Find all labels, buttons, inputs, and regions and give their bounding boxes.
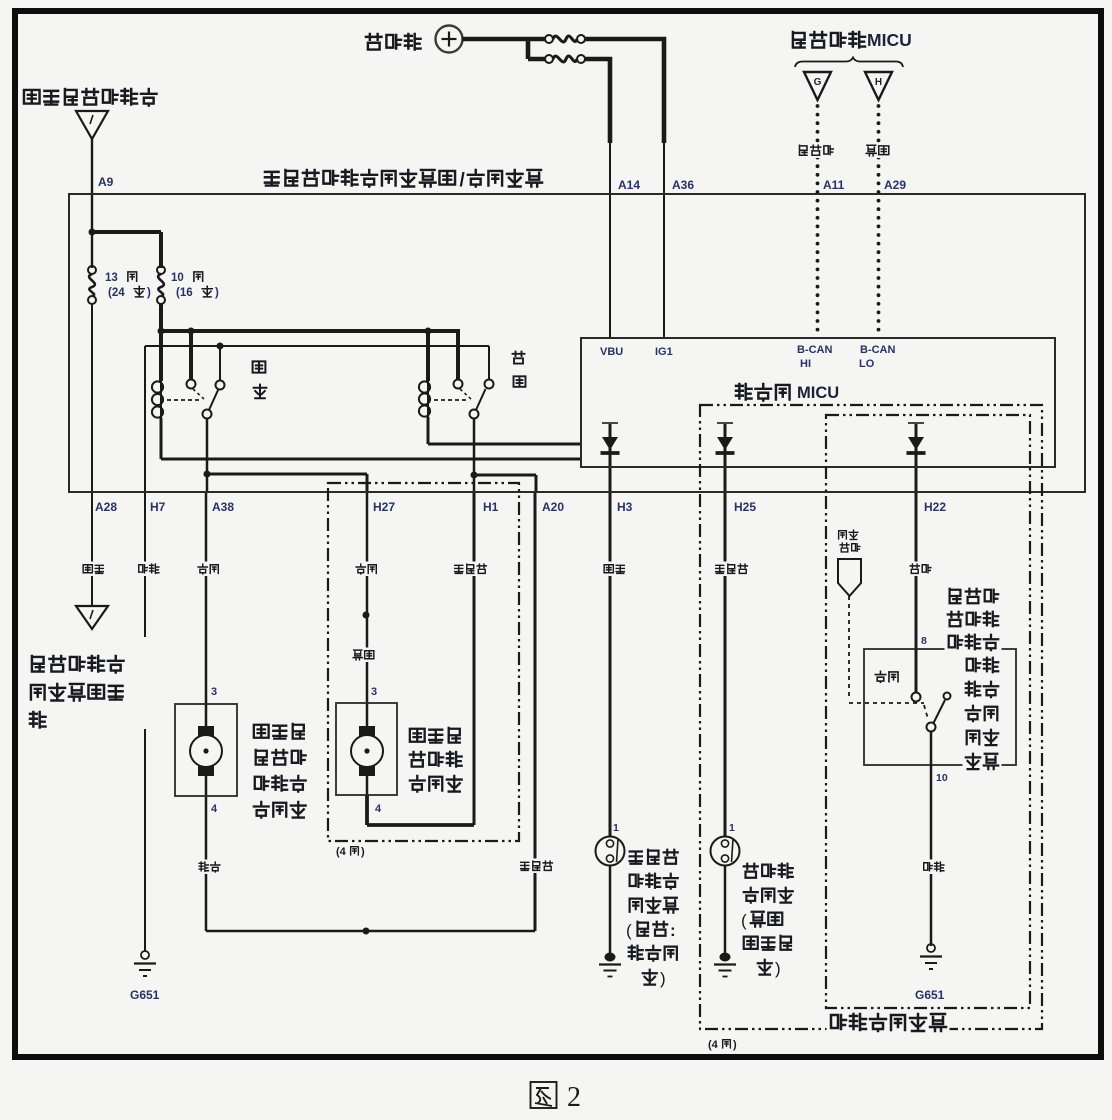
svg-text:H25: H25	[734, 500, 756, 514]
svg-text:(4: (4	[708, 1039, 719, 1051]
svg-text:LO: LO	[859, 358, 875, 370]
svg-text:10: 10	[171, 272, 184, 284]
svg-text:VBU: VBU	[600, 346, 623, 358]
svg-text:A9: A9	[98, 175, 114, 189]
svg-text:A29: A29	[884, 178, 906, 192]
svg-text:B-CAN: B-CAN	[797, 344, 832, 356]
svg-text:G651: G651	[130, 988, 160, 1002]
svg-text:MICU: MICU	[797, 384, 839, 402]
svg-text:HI: HI	[800, 358, 811, 370]
svg-text:/: /	[460, 170, 466, 191]
svg-text:A20: A20	[542, 500, 564, 514]
svg-text:G651: G651	[915, 988, 945, 1002]
svg-text:A11: A11	[823, 178, 845, 192]
svg-text:(16: (16	[176, 287, 193, 299]
svg-text:H27: H27	[373, 500, 395, 514]
svg-text:(: (	[626, 921, 632, 940]
svg-text:(24: (24	[108, 287, 125, 299]
svg-text:(: (	[741, 911, 747, 930]
svg-text:H7: H7	[150, 500, 166, 514]
svg-text:G: G	[814, 77, 822, 88]
svg-text:(4: (4	[336, 846, 347, 858]
svg-text:10: 10	[936, 772, 948, 784]
svg-text:): )	[733, 1039, 737, 1051]
svg-text:): )	[215, 287, 219, 299]
svg-text:3: 3	[211, 686, 217, 698]
svg-text:A38: A38	[212, 500, 234, 514]
svg-text:): )	[660, 969, 666, 988]
svg-text:): )	[775, 959, 781, 978]
svg-text:2: 2	[567, 1082, 581, 1113]
svg-text:IG1: IG1	[655, 346, 673, 358]
svg-text:H: H	[875, 77, 882, 88]
svg-text:H1: H1	[483, 500, 499, 514]
svg-text:4: 4	[211, 803, 218, 815]
svg-text:4: 4	[375, 803, 382, 815]
svg-text:A14: A14	[618, 178, 640, 192]
svg-text:3: 3	[371, 686, 377, 698]
svg-text:8: 8	[921, 635, 927, 647]
svg-text:13: 13	[105, 272, 118, 284]
svg-text:): )	[361, 846, 365, 858]
svg-text:A28: A28	[95, 500, 117, 514]
svg-text:H3: H3	[617, 500, 633, 514]
svg-text:A36: A36	[672, 178, 694, 192]
svg-text:1: 1	[729, 822, 735, 834]
svg-text::: :	[670, 921, 676, 940]
svg-text:): )	[147, 287, 151, 299]
svg-text:H22: H22	[924, 500, 946, 514]
svg-text:MICU: MICU	[867, 30, 912, 50]
svg-text:B-CAN: B-CAN	[860, 344, 895, 356]
svg-text:1: 1	[613, 822, 619, 834]
